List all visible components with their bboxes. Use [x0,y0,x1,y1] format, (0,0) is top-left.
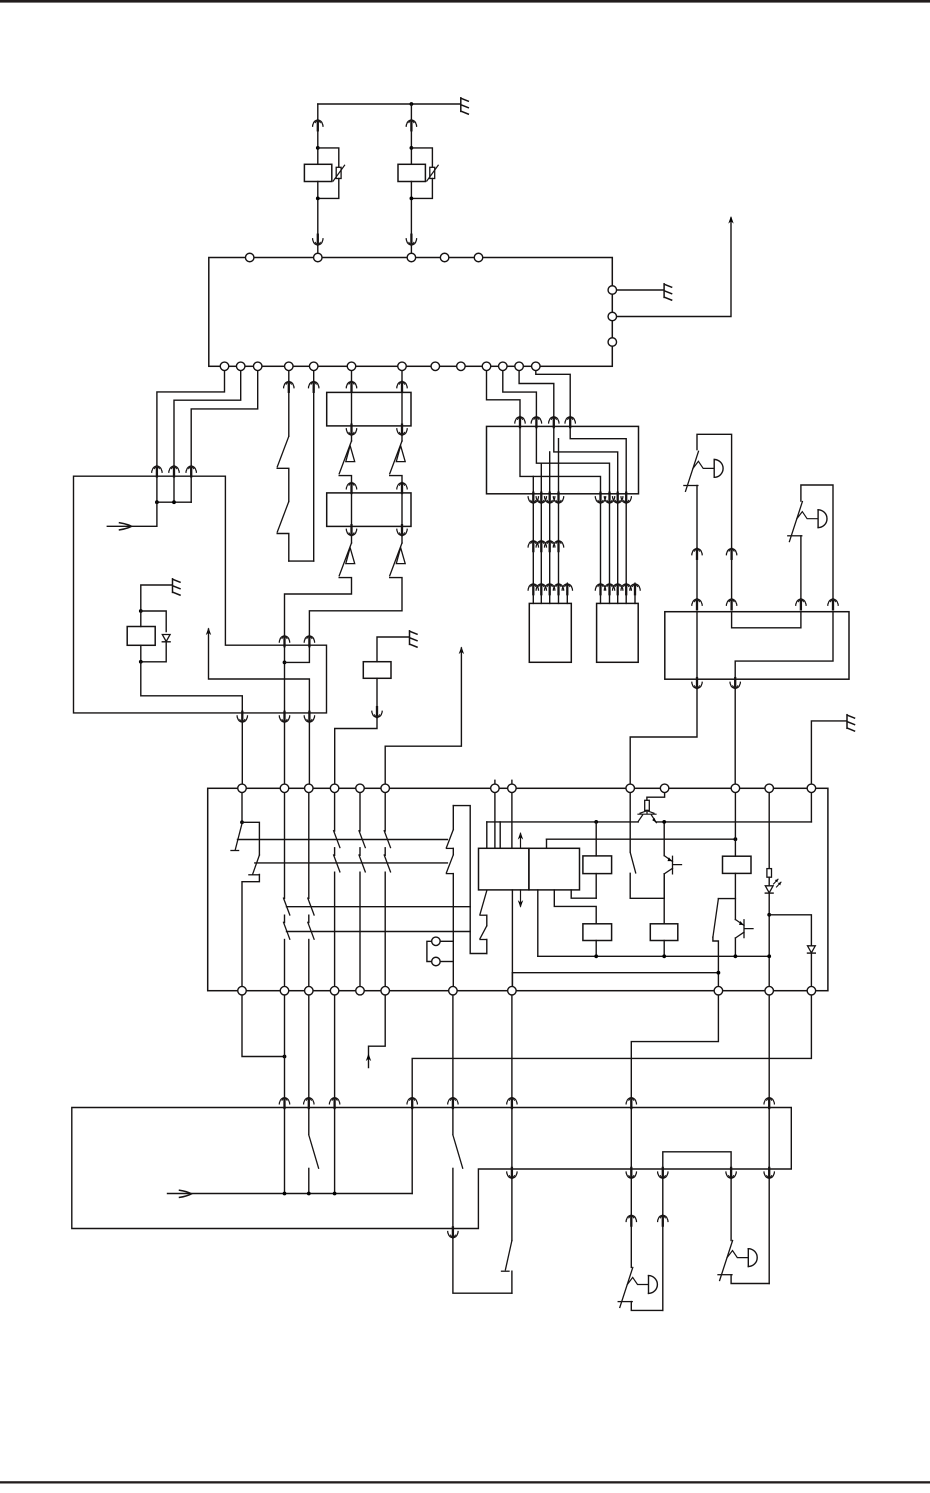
switch chainB S1 contact [390,476,402,488]
wire gang col bottom [359,872,361,991]
switch H2 contact [800,536,802,599]
connector J1 out5 [595,493,605,504]
wire inj stub [549,594,551,603]
pin jumper2 [432,957,441,966]
wire horn1 lead2 [630,1226,632,1268]
wire ext drop1 [284,645,286,713]
node B3 bus3 [333,1192,337,1196]
switch gang2 blade [284,898,290,915]
connector J1 out1 [528,493,538,504]
pin B2 bottom [449,986,458,995]
switch PN blade [505,1241,512,1270]
connector meter in3 [186,465,196,476]
wire railA right [656,821,811,823]
connector fan in1 [515,416,525,427]
wire R2 bottom lead b [410,246,412,254]
pin jumper1 [432,937,441,946]
switch chainA S1 contact [339,476,351,488]
relay coil K1 [127,627,155,646]
wire B3 sw out [308,1168,310,1193]
pin ECU top [407,253,416,262]
wire c11 down [412,991,811,1096]
node c2 join [283,1055,287,1059]
resistor block RB1 [327,392,411,426]
wire SW1 lead b [288,392,290,436]
node railF tap2 [662,954,666,958]
connector relay box in2 [304,635,314,646]
wire R2 top lead b [410,130,412,164]
wire railF [538,955,769,957]
pin B2 top [660,784,669,793]
sensor unit S1 [363,662,391,679]
wire chainB seg4 [401,536,403,543]
horn unit H1 frame [697,434,732,548]
wire notch1 [486,822,488,848]
wire chainA seg2 [351,436,353,441]
varistor RV1 [336,167,341,178]
wire sensor out [376,678,378,707]
switch pole blade2 [446,855,453,873]
connector B3 out2 [507,1168,517,1179]
wire ig branch [242,822,259,855]
wire R2 wrap lower [411,179,432,199]
switch SW1 contact [277,468,289,501]
wire meter bus drop3 [190,476,192,502]
connector B3 in7 [764,1097,774,1108]
wire rail3 [287,906,471,908]
wire B3 bus v3 [334,1108,336,1194]
node railG end [717,971,721,975]
wire gang2 col top [284,788,286,898]
switch SW2 blade [277,502,289,533]
wire RS1 out [595,874,597,899]
resistor block RB2 [327,493,411,527]
switch boxA foot2 [480,939,487,941]
wire R2 bottom lead [410,182,412,235]
wire B3 pass8 [511,1108,513,1170]
connector relay box in1 [279,635,289,646]
pin B2 top [807,784,816,793]
pin B2 top [491,784,500,793]
arrow B3 bus [180,1190,192,1197]
switch gang blade [359,831,365,848]
wire B3 bus v1 [284,1108,286,1194]
wire meter feed [107,502,157,526]
wire RB out2 down [734,689,736,788]
wire rail1 [238,839,448,841]
connector J1 out6 [604,493,614,504]
wire B3 nsw out [452,1168,454,1228]
wire col630 mid [630,873,664,898]
switch SW2 contact [277,534,289,562]
wire c9 down [631,991,718,1096]
wire pin3 stair [191,366,258,465]
fuse F2 [767,869,772,878]
connector chainA p4 [346,525,356,536]
ground G1 [461,98,469,114]
wire J1 tap2 [549,452,551,494]
switch gang2 blade2 [308,922,314,939]
node relay junction [410,102,414,106]
wire c2 down [284,991,286,1096]
wire gang col top [359,788,361,831]
wire inj stub [600,594,602,603]
wire boxA out [511,890,513,991]
wire pin5 drop b [313,392,315,561]
wire chainA seg3 [351,493,353,527]
connector inj R [612,583,622,594]
varistor RV2 [430,167,435,178]
horn H2 symbol [789,502,802,542]
switch chainA S2 sensor [346,548,355,564]
resistor RS1 [583,856,612,874]
switch chainB S1 sensor [396,446,405,462]
wire inj harness a [558,504,560,541]
wire horn2 lead [730,1179,732,1241]
connector meter in1 [152,465,162,476]
wire RS2 out [595,941,597,957]
wire col630 top [629,788,631,852]
switch gang2 blade [308,898,314,915]
switch B3 S1 blade [309,1135,319,1168]
horn symbol horn2 [720,1241,733,1281]
switch chainA S1 blade [339,441,351,474]
pin B2 top [356,784,365,793]
wire J1 row3 [536,426,609,493]
pin B2 top [508,784,517,793]
node K1 top [139,609,143,613]
wire inj harness b [549,551,551,583]
pin ECU top [245,253,254,262]
connector H1 b [726,548,736,559]
connector B3 in1 [279,1097,289,1108]
wire gang2 col mid [284,915,286,922]
ground G4 [410,631,418,647]
wire pin1 stair [157,366,225,465]
wire RS3 out [663,941,665,957]
connector B3 in2 [304,1097,314,1108]
connector pin5 [308,381,318,392]
wire fan stair4 [536,366,570,416]
wire gang2 col top [308,788,310,898]
node railB end [734,837,738,841]
wire R1 wrap [318,148,339,167]
wire led feed [768,788,770,868]
transistor T2 [673,856,682,874]
wire chainA seg1 [351,366,353,380]
connector horn1 a [626,1214,636,1225]
pin B2 top [381,784,390,793]
wire inj harness b [558,551,560,583]
node ig pivot [240,820,244,824]
pin ECU bottom [220,362,229,371]
switch boxA blade1 [480,891,487,915]
wire gang col mid [359,848,361,856]
wire boxB out2 [554,890,596,924]
wire RS3 feed [663,874,665,924]
node railF tap1 [594,954,598,958]
connector H1 c [692,598,702,609]
wire B3 pass7 [768,1108,770,1170]
wire horn1 return [662,1226,664,1311]
diode D3 [808,946,816,953]
wire fan stair3 [519,366,554,416]
connector fan in3 [549,416,559,427]
wire T2 out [663,874,665,898]
connector inline [553,540,563,551]
pin ECU bottom [532,362,541,371]
wire SWT3 out [713,937,719,991]
wire gang col top [334,788,336,831]
wire fan stair1 [487,366,521,416]
wire sensor gnd [377,637,409,662]
connector B3 in5 [507,1097,517,1108]
node railA tapT2 [662,820,666,824]
wire chainB out [309,578,402,635]
pin ECU bottom [398,362,407,371]
node railF tap3 [734,954,738,958]
wire PN right out [511,1271,513,1293]
pin ECU right [608,312,617,321]
wire railG [512,972,718,974]
pin B2 bottom [508,986,517,995]
connector horn1 b [658,1214,668,1225]
top border bar [0,0,930,3]
wire horn2 return [768,1179,770,1284]
switch chainA S2 blade [339,543,351,576]
switch gang blade2 [384,855,390,872]
fuse F1 [645,800,650,810]
connector chainA p3 [346,482,356,493]
wire c1 down [242,991,285,1057]
wire B3 pass6 [630,1108,632,1170]
wire fan stair2 [503,366,537,416]
pump box A [479,848,529,890]
connector B3 in4 [448,1097,458,1108]
wire PN left [453,1238,512,1293]
wire c7 down [452,991,454,1096]
connector chainA p2 [346,425,356,436]
connector chainB p1 [397,381,407,392]
junction box J1 [487,426,639,493]
connector J1 out7 [612,493,622,504]
pin B2 top [626,784,635,793]
wire inj stub [634,594,636,603]
horn unit H2 frame [801,485,833,598]
ECU box U1 [209,258,613,367]
wire sensor to main [335,718,377,788]
connector relay R1 top [313,119,323,130]
connector SW1 top [284,381,294,392]
diode D1 [162,635,170,642]
pin ECU bottom [285,362,294,371]
wire K1 lead [140,611,142,627]
wire R1 top lead b [317,130,319,164]
connector RB out1 [692,678,702,689]
connector inj R [595,583,605,594]
wire pin2 stair [174,366,241,465]
node railA tapR1 [594,820,598,824]
wire inj harness c [600,504,602,584]
node meter bus2 [172,500,176,504]
pin B2 bottom [238,986,247,995]
pin B2 bottom [356,986,365,995]
node R1 wrap top [316,146,320,150]
pin ECU top [440,253,449,262]
pin ECU bottom [253,362,262,371]
connector inline [536,540,546,551]
switch gang blade [334,831,340,848]
wire R2 wrap [411,148,432,167]
switch gang blade [384,831,390,848]
pump box B [529,848,580,890]
wire inj stub [566,594,568,603]
transistor T3 [744,920,753,938]
pin ECU top [474,253,483,262]
node R2 wrap top [410,146,414,150]
wire arrow to pin [385,648,461,788]
connector inj R [604,583,614,594]
LED D2 [765,886,773,893]
wire boxB out3 [571,890,596,898]
connector chainA p1 [346,381,356,392]
wire R1 top lead [317,104,319,119]
connector chainB p3 [397,482,407,493]
wire railG drop [511,973,513,991]
connector inj L [544,583,554,594]
wire inj harness a [540,504,542,541]
arrow stub up [206,628,211,636]
switch PN foot [502,1270,510,1272]
switch pole foot2 [446,873,453,875]
wire T3 out [734,938,736,956]
pin ECU bottom [515,362,524,371]
connector meter out2 [279,712,289,723]
pin B2 bottom [807,986,816,995]
connector meter out1 [237,712,247,723]
arrow stub up2 [459,647,464,655]
wire rail2 [255,862,448,864]
pin B2 top [305,784,314,793]
connector H2 b [828,598,838,609]
connector B3 out3 [626,1168,636,1179]
wire K1 wrap top [141,611,166,632]
wire B3 nsw lead [452,1108,454,1135]
wire inj stub [558,594,560,603]
wire gang2 col bottom [308,940,310,991]
wire J1 row2 [554,426,618,493]
wire arrow feed [209,629,310,713]
pin B2 bottom [305,986,314,995]
wire K1 wrap bottom [141,642,166,662]
wire SW1 lead [288,366,290,380]
pin ECU bottom [347,362,356,371]
node K1 bottom [139,660,143,664]
injector box L [529,603,571,662]
wire inj harness c [609,504,611,584]
switch B3 S2 blade [453,1135,463,1168]
switch boxA foot1 [480,914,487,916]
pin ECU right [608,338,617,347]
wire R1 bottom lead b [317,246,319,254]
wire c8 down [511,991,513,1096]
wire meter1 down [241,723,243,789]
wire c3 down [308,991,310,1096]
wire horn1 return2 [662,1179,664,1215]
connector J1 out3 [544,493,554,504]
wire inj stub [625,594,627,603]
switch boxA blade2 [480,926,487,939]
wire ig common [241,788,243,822]
wire J1 tap3 [540,463,542,494]
switch horn1 contact [631,1302,663,1311]
horn symbol horn1 [620,1267,633,1307]
pin B2 top [731,784,740,793]
pin ECU top [314,253,323,262]
connector fan in4 [565,416,575,427]
node railF end [767,954,771,958]
wire H1 leads2 [731,559,733,599]
wire T2 feed [663,822,665,856]
wire gang col bottom [384,872,386,991]
relay box RB [665,612,849,680]
ground G2 [664,284,672,300]
wire B3 bridge [663,1152,731,1169]
switch ig foot2 [249,874,260,876]
switch gang blade2 [359,855,365,872]
connector chainB p4 [397,525,407,536]
wire top feed [318,103,460,105]
connector B3 out5 [726,1168,736,1179]
wire jumper right2 [440,961,453,963]
wire meter2 down [284,723,286,789]
connector relay R2 bottom [406,235,416,246]
pin B2 bottom [714,986,723,995]
arrow pump down [518,900,523,908]
wire meter3 down [308,723,310,789]
connector B3 out4 [658,1168,668,1179]
wire railB [547,838,736,840]
meter box M1 [74,476,327,713]
wire J1 tap4 [532,476,534,493]
switch chainB S1 blade [390,441,402,474]
connector relay R1 bottom [313,235,323,246]
connector inline [528,540,538,551]
switch SW1 blade [277,436,289,467]
switch chainA S1 sensor [346,446,355,462]
horn H1 symbol [686,451,699,491]
wire meter bus [157,501,191,503]
wire pinP feed [494,788,496,848]
resistor RS3 [650,924,678,941]
switch SWT3 blade [713,899,719,938]
connector inj L [528,583,538,594]
connector H2 a [796,598,806,609]
wire J1 tap1 [558,439,560,494]
transistor T1 [646,810,648,813]
connector inj L [536,583,546,594]
connector B3 in8 [407,1097,417,1108]
wire RB link [732,612,801,628]
ground G5 [847,715,855,731]
wire inj harness b [540,551,542,583]
wire horn1 lead [630,1179,632,1215]
wire meter bus drop1 [156,476,158,502]
connector H1 a [692,548,702,559]
wire pin664 lead [647,788,665,800]
wire relay K1 gnd [141,585,172,611]
wire SW chain join [289,560,314,562]
